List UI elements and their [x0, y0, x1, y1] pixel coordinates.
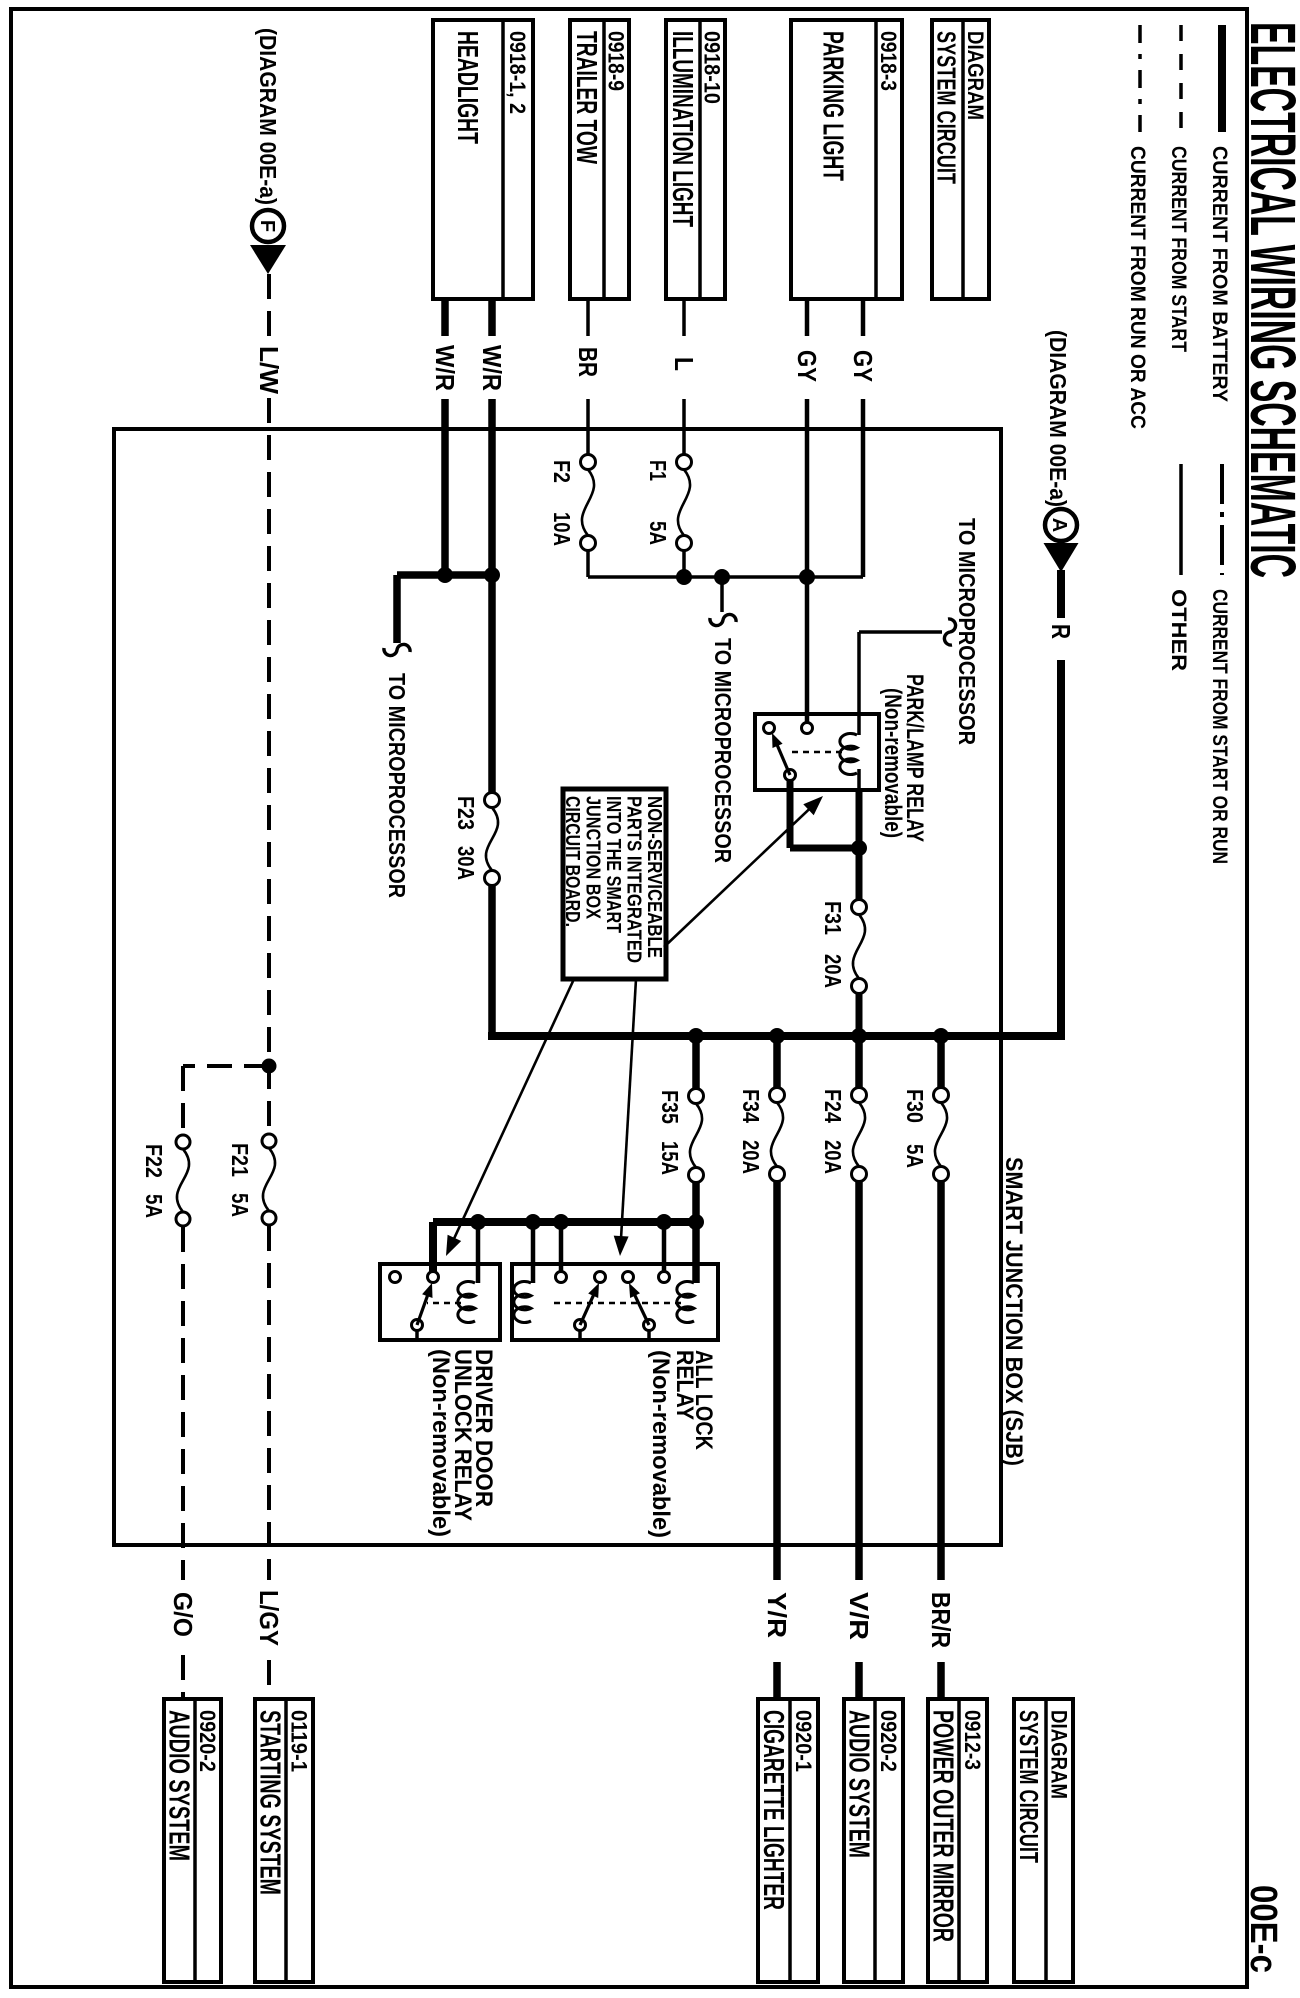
svg-text:TO MICROPROCESSOR: TO MICROPROCESSOR — [954, 518, 980, 745]
svg-text:PARTS INTEGRATED: PARTS INTEGRATED — [623, 796, 645, 963]
svg-text:L/GY: L/GY — [254, 1590, 284, 1646]
svg-text:L/W: L/W — [254, 346, 284, 394]
svg-text:ILLUMINATION LIGHT: ILLUMINATION LIGHT — [666, 31, 698, 227]
svg-text:0920-2: 0920-2 — [195, 1710, 220, 1772]
svg-text:TO MICROPROCESSOR: TO MICROPROCESSOR — [384, 673, 410, 898]
svg-text:F22: F22 — [141, 1144, 167, 1178]
svg-text:SYSTEM CIRCUIT: SYSTEM CIRCUIT — [1014, 1710, 1044, 1863]
svg-text:F31: F31 — [820, 901, 846, 935]
svg-text:SYSTEM CIRCUIT: SYSTEM CIRCUIT — [932, 31, 962, 184]
svg-text:A: A — [1048, 518, 1070, 532]
svg-text:F: F — [256, 220, 278, 232]
svg-text:PARKING LIGHT: PARKING LIGHT — [817, 31, 849, 181]
svg-text:DIAGRAM: DIAGRAM — [1047, 1710, 1072, 1799]
svg-text:TO MICROPROCESSOR: TO MICROPROCESSOR — [710, 638, 736, 863]
svg-text:(DIAGRAM 00E-a): (DIAGRAM 00E-a) — [255, 28, 281, 205]
svg-text:AUDIO SYSTEM: AUDIO SYSTEM — [163, 1710, 195, 1861]
svg-text:00E-c: 00E-c — [1242, 1885, 1284, 1973]
svg-text:0918-1, 2: 0918-1, 2 — [505, 31, 530, 114]
svg-text:5A: 5A — [645, 521, 671, 545]
svg-text:F35: F35 — [657, 1090, 683, 1124]
svg-text:0920-1: 0920-1 — [791, 1710, 816, 1772]
svg-text:CURRENT FROM BATTERY: CURRENT FROM BATTERY — [1208, 146, 1231, 402]
svg-text:ELECTRICAL WIRING SCHEMATIC: ELECTRICAL WIRING SCHEMATIC — [1237, 22, 1300, 578]
svg-text:L: L — [669, 357, 699, 371]
svg-text:W/R: W/R — [477, 345, 507, 391]
svg-text:0119-1: 0119-1 — [287, 1710, 312, 1772]
svg-text:JUNCTION BOX: JUNCTION BOX — [582, 796, 604, 920]
svg-text:(Non-removable): (Non-removable) — [647, 1350, 674, 1538]
svg-text:HEADLIGHT: HEADLIGHT — [451, 31, 483, 144]
svg-text:TRAILER TOW: TRAILER TOW — [570, 31, 602, 164]
svg-text:W/R: W/R — [430, 345, 460, 391]
svg-text:5A: 5A — [902, 1144, 928, 1168]
svg-text:5A: 5A — [227, 1193, 253, 1217]
svg-text:INTO THE SMART: INTO THE SMART — [602, 796, 624, 933]
svg-text:SMART JUNCTION BOX (SJB): SMART JUNCTION BOX (SJB) — [1000, 1157, 1027, 1466]
svg-text:(Non-removable): (Non-removable) — [879, 688, 906, 838]
svg-text:G/O: G/O — [168, 1592, 198, 1637]
svg-text:NON-SERVICEABLE: NON-SERVICEABLE — [643, 796, 665, 958]
svg-text:15A: 15A — [657, 1141, 683, 1175]
svg-text:CURRENT FROM START OR RUN: CURRENT FROM START OR RUN — [1208, 589, 1231, 864]
svg-text:F2: F2 — [549, 460, 575, 483]
svg-text:5A: 5A — [141, 1194, 167, 1218]
svg-text:DIAGRAM: DIAGRAM — [963, 31, 988, 120]
svg-text:GY: GY — [848, 350, 878, 382]
svg-text:0912-3: 0912-3 — [960, 1710, 985, 1770]
svg-text:F23: F23 — [453, 796, 479, 830]
svg-text:CURRENT FROM START: CURRENT FROM START — [1167, 146, 1190, 352]
svg-text:F21: F21 — [227, 1143, 253, 1177]
svg-text:F24: F24 — [820, 1089, 846, 1123]
svg-text:CIRCUIT BOARD.: CIRCUIT BOARD. — [561, 796, 583, 927]
svg-text:0918-10: 0918-10 — [700, 31, 725, 104]
svg-text:CIGARETTE LIGHTER: CIGARETTE LIGHTER — [757, 1710, 789, 1910]
svg-text:0918-3: 0918-3 — [876, 31, 901, 91]
svg-text:AUDIO SYSTEM: AUDIO SYSTEM — [843, 1710, 875, 1858]
svg-text:BR/R: BR/R — [926, 1592, 956, 1648]
svg-text:F30: F30 — [902, 1089, 928, 1123]
svg-text:30A: 30A — [453, 846, 479, 880]
svg-text:20A: 20A — [738, 1140, 764, 1174]
svg-text:CURRENT FROM RUN OR ACC: CURRENT FROM RUN OR ACC — [1126, 146, 1149, 429]
svg-text:OTHER: OTHER — [1167, 589, 1190, 671]
svg-text:F34: F34 — [738, 1089, 764, 1123]
svg-text:GY: GY — [792, 350, 822, 382]
svg-text:R: R — [1046, 624, 1076, 639]
svg-text:(DIAGRAM 00E-a): (DIAGRAM 00E-a) — [1045, 330, 1071, 507]
svg-text:20A: 20A — [820, 954, 846, 988]
svg-text:0918-9: 0918-9 — [604, 31, 629, 91]
svg-text:BR: BR — [573, 347, 603, 377]
svg-text:POWER OUTER MIRROR: POWER OUTER MIRROR — [927, 1710, 959, 1942]
svg-text:0920-2: 0920-2 — [876, 1710, 901, 1772]
svg-text:(Non-removable): (Non-removable) — [427, 1349, 454, 1537]
svg-text:RELAY: RELAY — [671, 1350, 698, 1420]
svg-text:10A: 10A — [549, 512, 575, 546]
svg-text:V/R: V/R — [844, 1592, 874, 1640]
svg-text:20A: 20A — [820, 1140, 846, 1174]
svg-text:F1: F1 — [645, 460, 671, 481]
svg-text:Y/R: Y/R — [762, 1592, 792, 1638]
svg-text:STARTING SYSTEM: STARTING SYSTEM — [254, 1710, 286, 1895]
